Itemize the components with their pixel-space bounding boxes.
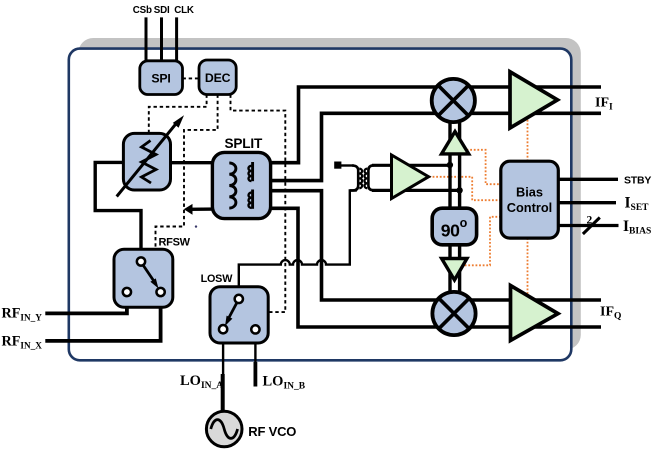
dashed control SPI to DEC xyxy=(183,77,200,79)
wire LOSW common to balun primary with hops xyxy=(239,191,357,296)
wire balun input terminal xyxy=(339,164,354,166)
bias orange line to IF_Q amp xyxy=(527,238,529,300)
IBIAS bus slash xyxy=(583,218,600,235)
chip shadow xyxy=(78,38,581,350)
wire SPLIT primary bottom to arrow terminal xyxy=(189,207,230,211)
bias output wire STBY xyxy=(558,178,618,181)
balun primary coil xyxy=(350,166,358,191)
bias control block xyxy=(501,161,559,238)
bias orange line to LO down buffer xyxy=(463,217,501,265)
variable attenuator block xyxy=(123,133,170,190)
bias output wire IBIAS xyxy=(558,224,618,227)
svg-text:CSb: CSb xyxy=(133,5,152,16)
LOSW switch arm xyxy=(229,302,238,318)
wire RFSW to attenuator xyxy=(95,162,141,259)
SPLIT block xyxy=(212,152,270,218)
balun secondary coil xyxy=(368,165,374,190)
LOSW pin A xyxy=(219,325,227,333)
mixer Q xyxy=(432,292,475,335)
mixer I xyxy=(432,79,475,122)
IF_I output amplifier xyxy=(510,72,558,128)
svg-text:STBY: STBY xyxy=(624,174,651,186)
wire LO pair vertical left xyxy=(448,119,451,295)
wire LO_IN_B from LOSW xyxy=(254,332,256,362)
LOSW pin B xyxy=(251,325,259,333)
wire LO pair vertical right xyxy=(458,119,461,295)
svg-text:SPLIT: SPLIT xyxy=(225,136,263,151)
SPI input wires xyxy=(146,17,177,63)
svg-text:SDI: SDI xyxy=(154,5,170,16)
stray dot artifact xyxy=(195,225,197,227)
dashed control DEC to RFSW xyxy=(156,95,218,250)
wire balun secondary top to LO pair xyxy=(372,164,450,167)
wire RF_IN_Y input xyxy=(45,295,127,314)
svg-text:Control: Control xyxy=(507,200,553,215)
svg-text:RF VCO: RF VCO xyxy=(248,424,296,439)
LOSW pin common xyxy=(235,295,243,303)
svg-text:Bias: Bias xyxy=(516,185,543,200)
LO up buffer triangle xyxy=(442,132,469,154)
attenuator arrow xyxy=(117,123,177,197)
wire RF split top out to I mixer xyxy=(251,87,601,163)
svg-text:DEC: DEC xyxy=(205,71,231,85)
wire attenuator to SPLIT primary xyxy=(171,161,232,164)
IF_Q output amplifier xyxy=(511,286,559,341)
RF VCO source circle xyxy=(206,411,242,447)
bias orange line to LO amp xyxy=(429,177,501,200)
bias output wire ISET xyxy=(558,201,616,204)
wire RF split third out to Q mixer xyxy=(251,191,601,300)
svg-text:SPI: SPI xyxy=(151,71,170,85)
RFSW switch arm xyxy=(142,264,154,281)
DEC block xyxy=(199,60,236,95)
chip body outline xyxy=(69,49,572,361)
bias orange line to IF_I amp xyxy=(527,118,529,162)
arrow terminal at SPLIT primary xyxy=(184,204,193,215)
bias orange line to LO up buffer xyxy=(463,150,501,184)
RFSW pin X xyxy=(156,288,164,296)
LO amplifier xyxy=(392,155,429,199)
SPI block xyxy=(140,61,183,95)
LO down buffer triangle xyxy=(442,259,467,281)
junction dot left xyxy=(447,162,453,168)
wire RF_IN_X input xyxy=(45,295,160,341)
dashed control DEC to LOSW xyxy=(231,95,286,313)
wire balun secondary bottom to LO pair xyxy=(372,189,460,192)
svg-text:2: 2 xyxy=(587,215,593,227)
svg-text:RFSW: RFSW xyxy=(159,237,191,249)
RFSW switch block xyxy=(114,249,173,307)
wire RF split second out to I mixer xyxy=(251,113,601,180)
SPLIT primary coil xyxy=(229,163,236,208)
attenuator resistor zigzag xyxy=(142,141,157,184)
svg-text:LOSW: LOSW xyxy=(201,273,234,285)
junction dot right xyxy=(456,187,462,193)
90 degree phase shifter block xyxy=(432,208,476,245)
SPLIT secondary coil bottom xyxy=(251,190,254,209)
svg-text:CLK: CLK xyxy=(174,5,194,16)
wire LO_IN_A from LOSW to VCO xyxy=(222,332,224,374)
RFSW pin common xyxy=(137,257,145,265)
dashed control DEC to attenuator xyxy=(149,95,207,134)
LOSW switch block xyxy=(210,287,268,343)
RFSW pin Y xyxy=(123,288,131,296)
SPLIT secondary coil top xyxy=(251,162,254,181)
balun input square terminal xyxy=(334,162,341,169)
wire RF split bottom out to Q mixer xyxy=(251,208,601,327)
